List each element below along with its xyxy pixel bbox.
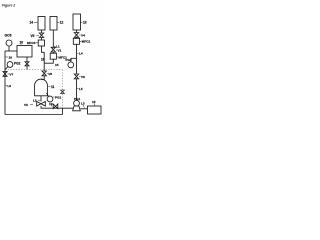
- box 10: [17, 46, 32, 58]
- svg-text:MFC2: MFC2: [82, 40, 91, 44]
- label L5: [77, 88, 78, 90]
- label V4: [79, 34, 80, 36]
- svg-text:MFC3: MFC3: [27, 41, 36, 45]
- svg-text:V9: V9: [31, 34, 35, 38]
- wire dashed vent line: [62, 70, 64, 109]
- gauge PG3: [68, 62, 74, 68]
- label 11: [49, 86, 51, 88]
- valve V6: [74, 74, 78, 79]
- svg-text:11: 11: [51, 85, 55, 89]
- wire dashed oven line: [5, 69, 63, 71]
- wire V9 to MFC3: [41, 38, 43, 41]
- label MFC1: [57, 56, 58, 58]
- label V7: [8, 73, 10, 75]
- valve V7: [3, 72, 7, 77]
- wire dome to PG1 diagonal: [47, 93, 49, 96]
- gauge PG2: [7, 62, 13, 68]
- label L4: [77, 52, 78, 54]
- column 12: [50, 17, 57, 31]
- wire MFC2 down right main: [76, 44, 78, 74]
- wire 13 to V4: [76, 30, 78, 33]
- svg-text:PG1: PG1: [55, 95, 61, 99]
- wire pump to box 15: [80, 108, 87, 110]
- wire bottom return line: [5, 114, 63, 116]
- svg-text:L5: L5: [79, 87, 83, 91]
- wire MFC3 down then right then down to junction: [42, 46, 45, 63]
- wire gauge stem: [8, 46, 10, 51]
- gauge GC6: [6, 40, 12, 46]
- label PG1: [53, 96, 54, 98]
- valve V4: [74, 33, 78, 38]
- wire box10 drain: [26, 57, 28, 62]
- svg-text:L4: L4: [79, 52, 83, 56]
- svg-text:V5: V5: [24, 103, 28, 107]
- wire V4 to MFC2: [76, 37, 78, 38]
- wire small valve stem: [26, 66, 28, 70]
- column 13: [73, 14, 81, 30]
- valve V1: [51, 47, 55, 52]
- wire dome drain: [40, 96, 42, 102]
- svg-text:V1: V1: [58, 49, 62, 53]
- box 15: [88, 106, 102, 114]
- svg-text:16: 16: [9, 55, 13, 59]
- svg-text:15: 15: [55, 63, 59, 67]
- wire V6 down: [76, 79, 78, 101]
- wire PG3 stem: [70, 58, 72, 62]
- label L1: [54, 45, 56, 47]
- leader 10: [20, 44, 22, 46]
- valve small under box 10: [25, 62, 29, 66]
- svg-text:L3: L3: [81, 101, 85, 105]
- box MFC1: [50, 53, 56, 59]
- wire PG2 stem: [5, 67, 8, 70]
- valve on bottom line: [53, 104, 58, 109]
- box MFC2: [73, 38, 79, 44]
- wire junction down: [43, 63, 45, 71]
- wire dome drain to bottom line: [41, 106, 73, 108]
- pump circle: [74, 100, 80, 106]
- svg-text:18: 18: [41, 58, 45, 62]
- valve V8: [42, 71, 46, 76]
- gauge PG1: [47, 96, 53, 102]
- label V6: [79, 75, 80, 77]
- svg-text:L6: L6: [7, 84, 11, 88]
- valve V9: [39, 33, 43, 38]
- wire riser to pump line: [62, 108, 64, 114]
- wire 14 to V9: [41, 30, 43, 33]
- svg-text:PG2: PG2: [14, 61, 21, 65]
- leader 14: [34, 21, 38, 23]
- svg-text:14: 14: [30, 21, 34, 25]
- wire left inlet to box 10: [5, 50, 17, 52]
- svg-text:PG2: PG2: [66, 58, 72, 62]
- wire branch to PG3: [71, 57, 77, 59]
- valve V5 horizontal: [37, 102, 46, 107]
- column 14: [38, 17, 45, 31]
- label V8: [47, 73, 48, 75]
- svg-text:15: 15: [92, 100, 96, 104]
- label L6: [6, 85, 8, 87]
- box MFC3: [38, 40, 44, 46]
- wire left main line: [4, 51, 6, 115]
- svg-text:12: 12: [60, 21, 64, 25]
- vessel 11 dome: [35, 79, 48, 96]
- wire MFC1 down and left to junction: [44, 59, 53, 63]
- svg-text:13: 13: [83, 21, 87, 25]
- wire V8 to dome: [41, 76, 44, 80]
- svg-text:V7: V7: [9, 72, 13, 76]
- valve tiny on vent line: [61, 90, 65, 94]
- pump base: [73, 106, 81, 111]
- svg-text:V4: V4: [81, 33, 85, 37]
- svg-text:V8: V8: [48, 72, 52, 76]
- svg-text:V6: V6: [81, 75, 85, 79]
- svg-text:Figure 2: Figure 2: [2, 4, 15, 8]
- svg-text:10: 10: [20, 41, 24, 45]
- wire 12 down: [52, 30, 54, 47]
- label V1: [56, 49, 57, 51]
- label MFC2: [80, 40, 81, 42]
- wire V1 to MFC1: [52, 52, 54, 53]
- svg-text:GC6: GC6: [5, 34, 12, 38]
- label 16 on left line: [6, 56, 9, 58]
- svg-text:19: 19: [49, 102, 53, 106]
- label 13: [81, 21, 83, 23]
- label 12: [57, 21, 59, 23]
